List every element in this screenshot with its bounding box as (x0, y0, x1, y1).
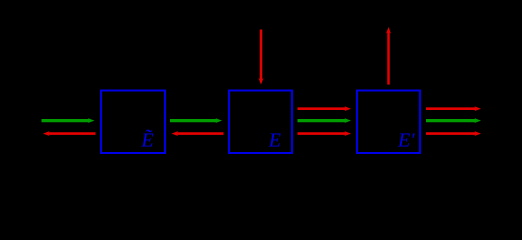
label E-tilde (140, 128, 153, 152)
svg-text:E: E (268, 130, 281, 152)
green arrow block1 to block2 (170, 118, 222, 123)
label E (268, 130, 281, 152)
red arrow output from block 1 (leftward) (43, 131, 96, 136)
red arrow output of block3 top (426, 106, 481, 111)
red arrow up out of block 3 (386, 27, 391, 85)
svg-text:Ẽ: Ẽ (140, 128, 153, 152)
red arrow block2 to block3 top (298, 106, 352, 111)
box E-prime (block 3) (357, 91, 420, 154)
green arrow output of block3 middle (426, 118, 481, 123)
box E-tilde (block 1) (101, 91, 165, 154)
svg-text:E′: E′ (397, 130, 415, 152)
red arrow block2 to block1 (leftward) (172, 131, 224, 136)
red arrow block2 to block3 bottom (298, 131, 352, 136)
label E-prime (397, 130, 415, 152)
red arrow output of block3 bottom (426, 131, 481, 136)
green arrow input to block 1 (42, 118, 95, 123)
red arrow down into block 2 (259, 30, 264, 85)
box E (block 2) (229, 91, 292, 154)
green arrow block2 to block3 middle (298, 118, 352, 123)
